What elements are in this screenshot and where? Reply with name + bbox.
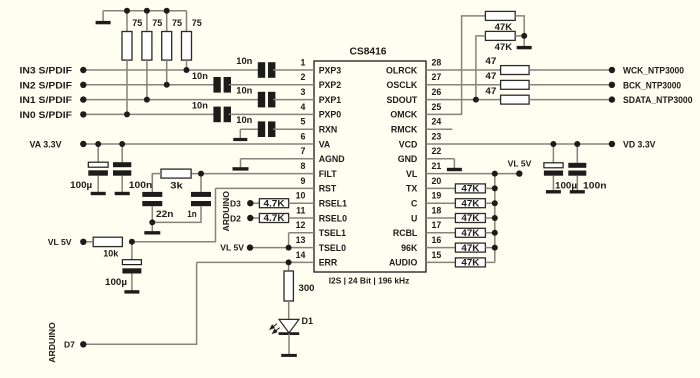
svg-text:24: 24	[432, 117, 442, 127]
svg-text:VL: VL	[406, 169, 418, 179]
value label 3k (R5)	[170, 180, 184, 190]
svg-text:5: 5	[300, 117, 305, 127]
capacitor C2 10n	[213, 77, 231, 93]
node 75-ohm rail junction 1	[124, 8, 130, 14]
wire VL rail	[426, 173, 519, 175]
pin label OSCLK (pin 27)	[387, 80, 418, 90]
svg-text:VA 3.3V: VA 3.3V	[30, 140, 63, 150]
value label 75 (R71)	[132, 18, 142, 28]
capacitor C1 10n	[258, 62, 276, 78]
resistor R9 300	[284, 271, 293, 301]
svg-text:SDATA_NTP3000: SDATA_NTP3000	[623, 95, 693, 105]
resistor R74 75	[182, 32, 192, 61]
pin label PXP2 (pin 2)	[319, 80, 342, 90]
pin label PXP3 (pin 1)	[319, 65, 342, 75]
node input junction 2	[144, 97, 150, 103]
svg-text:100µ: 100µ	[105, 277, 127, 287]
svg-text:4: 4	[300, 102, 305, 112]
wire R4 bottom	[186, 60, 188, 70]
wire RST down to 10k	[132, 188, 216, 241]
resistor 47 (WCK_NTP3000)	[501, 66, 529, 75]
net label D3	[230, 199, 241, 209]
wire R300 to LED	[288, 301, 290, 319]
svg-text:SDOUT: SDOUT	[387, 95, 418, 105]
wire TSEL1 down	[288, 233, 290, 248]
node VL junction	[492, 171, 498, 177]
svg-text:10: 10	[296, 191, 306, 201]
svg-text:26: 26	[432, 87, 442, 97]
svg-text:47K: 47K	[495, 22, 513, 32]
wire FILT	[191, 173, 314, 175]
resistor R7 4.7K	[259, 198, 288, 208]
ground (AGND)	[233, 159, 249, 169]
pin label VCD (pin 23)	[399, 139, 418, 149]
node VD junction 2	[574, 141, 580, 147]
value label 47 (SDATA_NTP3000)	[485, 86, 496, 96]
pin label VA (pin 6)	[319, 139, 331, 149]
svg-text:RXN: RXN	[319, 125, 338, 135]
terminal IN2 S/PDIF	[80, 82, 86, 88]
svg-text:75: 75	[152, 18, 162, 28]
svg-text:100µ: 100µ	[555, 180, 577, 190]
wire R3 bottom	[166, 60, 168, 85]
svg-text:100n: 100n	[129, 180, 153, 190]
net label VL 5V (TSEL0)	[220, 243, 244, 253]
svg-text:22: 22	[432, 146, 442, 156]
value label 10k (R6)	[103, 248, 119, 258]
node 10k/100u junction	[129, 239, 135, 245]
value label 75 (R72)	[152, 18, 162, 28]
svg-text:17: 17	[432, 220, 442, 230]
wire pin 28 to 47 ohm	[426, 69, 501, 71]
ground (pin 22)	[447, 159, 462, 170]
svg-text:96K: 96K	[401, 243, 418, 253]
pin number 24	[432, 117, 442, 127]
pin label RXN (pin 5)	[319, 125, 338, 135]
value label 100u (C10)	[105, 277, 127, 287]
wire pin 17 to 47K	[426, 232, 455, 234]
svg-text:75: 75	[172, 18, 182, 28]
svg-text:7: 7	[300, 146, 305, 156]
svg-text:C: C	[411, 199, 418, 209]
svg-text:47K: 47K	[461, 228, 480, 238]
wire VCD rail	[426, 143, 612, 145]
svg-text:100µ: 100µ	[70, 180, 92, 190]
svg-text:ERR: ERR	[319, 258, 338, 268]
svg-text:IN0 S/PDIF: IN0 S/PDIF	[20, 110, 73, 120]
value label 47K (R10)	[495, 22, 513, 32]
wire LED to ground	[288, 334, 290, 354]
wire OMCK to 47K	[426, 16, 485, 115]
svg-text:D7: D7	[64, 340, 75, 350]
node VD junction 1	[550, 141, 556, 147]
svg-text:23: 23	[432, 131, 442, 141]
wire 47K (C) to VL	[485, 202, 494, 204]
pin label RSEL1 (pin 10)	[319, 199, 347, 209]
net label SDATA_NTP3000	[623, 95, 693, 105]
wire 1n bottom	[152, 206, 201, 222]
svg-text:IN1 S/PDIF: IN1 S/PDIF	[20, 95, 73, 105]
svg-text:PXP1: PXP1	[319, 95, 342, 105]
wire R11 right	[515, 35, 524, 37]
pin number 8	[300, 161, 305, 171]
wire R2 top	[146, 11, 148, 32]
terminal SDATA_NTP3000	[609, 96, 615, 102]
pin label VL (pin 21)	[406, 169, 418, 179]
wire pin 20 to 47K	[426, 187, 455, 189]
ground (RXN)	[233, 129, 247, 139]
wire ERR to D7	[83, 262, 196, 344]
svg-text:47: 47	[485, 71, 496, 81]
pin number 7	[300, 146, 305, 156]
ground (C7)	[115, 192, 130, 194]
net label IN3 S/PDIF	[20, 66, 73, 76]
capacitor C5 10n	[258, 121, 276, 137]
capacitor C4 10n	[213, 107, 231, 123]
pin number 28	[432, 57, 442, 67]
svg-text:U: U	[411, 213, 417, 223]
wire 47K (96K) to VL	[485, 247, 494, 249]
svg-text:19: 19	[432, 191, 442, 201]
terminal D2	[247, 215, 253, 221]
svg-text:VL 5V: VL 5V	[508, 159, 532, 169]
svg-text:300: 300	[299, 283, 315, 293]
node SDOUT junction	[473, 97, 479, 103]
svg-text:AGND: AGND	[319, 154, 345, 164]
wire IN0 to cap	[83, 113, 215, 115]
value label 300 (R9)	[299, 283, 315, 293]
wire R1 top	[126, 11, 128, 32]
svg-text:TX: TX	[406, 184, 417, 194]
node VL junction (U)	[492, 215, 498, 221]
svg-text:FILT: FILT	[319, 169, 338, 179]
wire TSEL0	[289, 247, 314, 249]
wire 22n bottom	[151, 206, 153, 222]
svg-text:10n: 10n	[192, 100, 208, 110]
wire RXN gnd to cap	[240, 128, 260, 130]
terminal D3	[247, 200, 253, 206]
capacitor C9 1n	[191, 192, 211, 206]
svg-text:10n: 10n	[236, 115, 252, 125]
svg-text:TSEL1: TSEL1	[319, 228, 346, 238]
wire pin 16 to 47K	[426, 247, 455, 249]
capacitor C7 100n	[113, 144, 131, 192]
svg-text:VL 5V: VL 5V	[48, 237, 72, 247]
resistor R71 75	[122, 32, 132, 61]
capacitor C8 22n	[142, 192, 162, 206]
IC name CS8416	[350, 47, 387, 58]
svg-text:75: 75	[192, 18, 202, 28]
svg-text:16: 16	[432, 235, 442, 245]
pin label RMCK (pin 24)	[391, 125, 418, 135]
resistor 47K (AUDIO)	[455, 258, 485, 268]
svg-text:47: 47	[485, 86, 496, 96]
IC mode label I2S | 24 Bit | 196 kHz	[329, 276, 410, 286]
wire VL5V to 10k	[83, 241, 93, 243]
pin number 23	[432, 131, 442, 141]
resistor 47K (C)	[455, 198, 485, 208]
value label 75 (R73)	[172, 18, 182, 28]
pin number 10	[296, 191, 306, 201]
value label 10n (C3)	[236, 86, 252, 96]
pin label PXP1 (pin 3)	[319, 95, 342, 105]
svg-text:OLRCK: OLRCK	[386, 65, 418, 75]
node VA junction 1	[95, 141, 101, 147]
terminal VD 3.3V	[609, 141, 615, 147]
terminal IN3 S/PDIF	[80, 67, 86, 73]
wire D3 to 4.7K	[250, 202, 259, 204]
resistor 47K (TX)	[455, 184, 485, 194]
pin number 16	[432, 235, 442, 245]
terminal D7	[80, 341, 86, 347]
value label 47 (WCK_NTP3000)	[485, 56, 496, 66]
pin number 5	[300, 117, 305, 127]
net label WCK_NTP3000	[623, 66, 684, 76]
svg-text:ARDUINO: ARDUINO	[47, 322, 57, 363]
resistor R10 47K	[485, 11, 515, 20]
svg-text:IN2 S/PDIF: IN2 S/PDIF	[20, 80, 73, 90]
ground (C6)	[91, 192, 106, 194]
resistor R5 3k	[161, 169, 191, 178]
svg-text:3k: 3k	[170, 180, 184, 190]
svg-text:PXP0: PXP0	[319, 110, 342, 120]
wire R10 right	[515, 16, 524, 36]
wire 75-ohm common rail	[103, 10, 186, 12]
ref label D1	[302, 316, 314, 326]
resistor 47 (BCK_NTP3000)	[501, 80, 529, 89]
resistor R72 75	[142, 32, 152, 61]
svg-text:PXP3: PXP3	[319, 65, 342, 75]
node input junction 3	[164, 82, 170, 88]
wire IN3 to cap	[83, 69, 260, 71]
svg-text:RSEL0: RSEL0	[319, 213, 347, 223]
svg-text:47K: 47K	[495, 42, 513, 52]
svg-text:VD 3.3V: VD 3.3V	[623, 140, 656, 150]
pin label ERR (pin 14)	[319, 258, 338, 268]
pin number 18	[432, 205, 442, 215]
pin number 12	[296, 220, 306, 230]
svg-text:10n: 10n	[236, 86, 252, 96]
node 47K gnd junction	[521, 33, 527, 39]
pin number 3	[300, 87, 305, 97]
wire R2 bottom	[146, 60, 148, 100]
svg-text:VL 5V: VL 5V	[220, 243, 244, 253]
pin number 21	[432, 161, 442, 171]
node TSEL junction	[286, 245, 292, 251]
ground (LED)	[281, 354, 297, 355]
node 22n/1n gnd junction	[149, 219, 155, 225]
wire VA rail	[83, 143, 314, 145]
svg-text:1n: 1n	[187, 209, 197, 219]
pin number 20	[432, 176, 442, 186]
wire 4.7K to pin 11	[289, 217, 314, 219]
svg-text:15: 15	[432, 250, 442, 260]
svg-text:47: 47	[485, 56, 496, 66]
svg-text:10n: 10n	[192, 71, 208, 81]
net label D2	[230, 213, 241, 223]
net label IN0 S/PDIF	[20, 110, 73, 120]
wire pin 18 to 47K	[426, 217, 455, 219]
resistor R8 4.7K	[259, 213, 288, 223]
pin number 27	[432, 72, 442, 82]
resistor R11 47K	[485, 31, 515, 40]
svg-text:BCK_NTP3000: BCK_NTP3000	[623, 80, 681, 90]
wire 47 ohm to WCK_NTP3000	[529, 69, 612, 71]
wire 47 ohm to SDATA_NTP3000	[529, 99, 612, 101]
pin label C (pin 19)	[411, 199, 418, 209]
svg-text:75: 75	[132, 18, 142, 28]
wire AGND	[241, 158, 315, 160]
wire R3 top	[166, 11, 168, 32]
pin label GND (pin 22)	[398, 154, 418, 164]
pin number 9	[300, 176, 305, 186]
wire TSEL1	[289, 232, 314, 234]
svg-text:PXP2: PXP2	[319, 80, 342, 90]
terminal BCK_NTP3000	[609, 82, 615, 88]
wire IN2 to cap	[83, 84, 215, 86]
svg-text:WCK_NTP3000: WCK_NTP3000	[623, 66, 684, 76]
svg-text:12: 12	[296, 220, 306, 230]
wire 47 ohm to BCK_NTP3000	[529, 84, 612, 86]
svg-text:AUDIO: AUDIO	[389, 258, 418, 268]
resistor R73 75	[162, 32, 172, 61]
pin label 96K (pin 16)	[401, 243, 418, 253]
value label 10n (C5)	[236, 115, 252, 125]
net label VL 5V (10k)	[48, 237, 72, 247]
pin number 25	[432, 102, 442, 112]
capacitor C3 10n	[258, 92, 276, 108]
svg-text:CS8416: CS8416	[350, 47, 387, 58]
node VL junction (96K)	[492, 245, 498, 251]
IC U1 CS8416 body	[314, 61, 426, 272]
net label D7	[64, 340, 75, 350]
pin number 4	[300, 102, 305, 112]
wire D2 to 4.7K	[250, 217, 259, 219]
capacitor C12 100n	[568, 144, 586, 190]
value label 47K (R11)	[495, 42, 513, 52]
pin number 2	[300, 72, 305, 82]
terminal IN0 S/PDIF	[80, 111, 86, 117]
LED D1	[270, 319, 299, 333]
wire cap C3 to pin 3	[273, 99, 314, 101]
terminal VL 5V (pin 21)	[516, 170, 522, 176]
pin number 26	[432, 87, 442, 97]
net label VA 3.3V	[30, 140, 63, 150]
pin label TSEL1 (pin 12)	[319, 228, 346, 238]
wire 47K (RCBL) to VL	[485, 232, 494, 234]
value label 47 (BCK_NTP3000)	[485, 71, 496, 81]
wire VL vertical	[494, 174, 496, 263]
ground (C10)	[124, 290, 139, 292]
svg-text:D3: D3	[230, 199, 241, 209]
pin label OLRCK (pin 28)	[386, 65, 418, 75]
terminal WCK_NTP3000	[609, 67, 615, 73]
ground (22n/1n)	[144, 222, 160, 232]
pin number 11	[296, 205, 305, 215]
resistor R6 10k	[93, 237, 122, 246]
svg-text:ARDUINO: ARDUINO	[221, 191, 231, 232]
net label VL 5V (pin 21)	[508, 159, 532, 169]
resistor 47K (U)	[455, 213, 485, 223]
value label 10n (C1)	[236, 56, 252, 66]
capacitor C11 100u (electrolytic)	[544, 144, 563, 190]
svg-text:47K: 47K	[461, 198, 480, 208]
node 75-ohm rail junction 3	[164, 8, 170, 14]
wire 47K (TX) to VL	[485, 187, 494, 189]
svg-text:IN3 S/PDIF: IN3 S/PDIF	[20, 66, 73, 76]
wire IN1 to cap	[83, 99, 260, 101]
svg-text:9: 9	[300, 176, 305, 186]
node 75-ohm rail junction 2	[144, 8, 150, 14]
svg-text:27: 27	[432, 72, 442, 82]
pin label RSEL0 (pin 11)	[319, 213, 347, 223]
svg-text:TSEL0: TSEL0	[319, 243, 346, 253]
svg-text:OMCK: OMCK	[390, 110, 418, 120]
node ERR/LED junction	[286, 259, 292, 265]
net label IN2 S/PDIF	[20, 80, 73, 90]
svg-text:22n: 22n	[156, 209, 174, 219]
svg-text:1: 1	[300, 57, 305, 67]
value label 100n (C12)	[583, 180, 607, 190]
net label IN1 S/PDIF	[20, 95, 73, 105]
pin number 17	[432, 220, 442, 230]
pin label AGND (pin 7)	[319, 154, 345, 164]
wire 47K (U) to VL	[485, 217, 494, 219]
pin number 13	[296, 235, 306, 245]
terminal VL 5V (TSEL0)	[247, 244, 253, 250]
wire cap C5 to pin 5	[273, 128, 314, 130]
pin label OMCK (pin 25)	[390, 110, 418, 120]
wire 4.7K to pin 10	[289, 202, 314, 204]
svg-text:18: 18	[432, 205, 442, 215]
wire R4 top	[186, 11, 188, 32]
resistor 47K (RCBL)	[455, 228, 485, 238]
svg-text:RSEL1: RSEL1	[319, 199, 347, 209]
ground (75-ohm rail)	[96, 11, 111, 23]
wire pin 26 to 47 ohm	[426, 99, 501, 101]
wire GND pin	[426, 158, 454, 160]
svg-text:VA: VA	[319, 139, 331, 149]
terminal VL 5V (10k)	[80, 239, 86, 245]
pin number 1	[300, 57, 305, 67]
svg-text:6: 6	[300, 131, 305, 141]
value label 10n (C4)	[192, 100, 208, 110]
node input junction 4	[184, 67, 190, 73]
wire R11 left to SDOUT	[476, 36, 486, 100]
svg-text:13: 13	[296, 235, 306, 245]
wire cap C4 to pin 4	[229, 113, 314, 115]
value label 22n (C8)	[156, 209, 174, 219]
pin label FILT (pin 8)	[319, 169, 338, 179]
node VA junction 2	[119, 141, 125, 147]
svg-text:VCD: VCD	[399, 139, 418, 149]
svg-text:21: 21	[432, 161, 442, 171]
value label 100n (C7)	[129, 180, 153, 190]
value label 100u (C6)	[70, 180, 92, 190]
svg-text:OSCLK: OSCLK	[387, 80, 418, 90]
svg-text:RST: RST	[319, 184, 337, 194]
node input junction 1	[124, 111, 130, 117]
wire pin 19 to 47K	[426, 202, 455, 204]
net label BCK_NTP3000	[623, 80, 681, 90]
pin label SDOUT (pin 26)	[387, 95, 418, 105]
net label ARDUINO (left)	[221, 191, 231, 232]
pin label AUDIO (pin 15)	[389, 258, 418, 268]
wire pin 27 to 47 ohm	[426, 84, 501, 86]
capacitor C6 100u (electrolytic)	[88, 144, 108, 192]
wire ERR	[197, 261, 314, 263]
svg-text:4.7K: 4.7K	[264, 213, 286, 223]
